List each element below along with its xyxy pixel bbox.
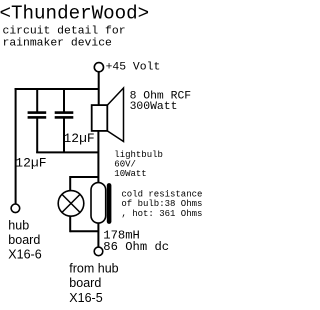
svg-text:board: board xyxy=(69,276,101,290)
svg-text:from hub: from hub xyxy=(69,262,118,276)
svg-text:of bulb:38 Ohms: of bulb:38 Ohms xyxy=(121,199,202,209)
svg-text:circuit detail for: circuit detail for xyxy=(3,26,126,38)
svg-text:12µF: 12µF xyxy=(15,155,46,170)
svg-text:lightbulb: lightbulb xyxy=(114,150,163,160)
svg-text:+45 Volt: +45 Volt xyxy=(106,61,161,73)
svg-text:10Watt: 10Watt xyxy=(114,169,146,179)
svg-text:cold resistance: cold resistance xyxy=(121,189,202,199)
svg-text:60V/: 60V/ xyxy=(114,160,136,170)
svg-text:, hot: 361 Ohms: , hot: 361 Ohms xyxy=(121,209,202,219)
svg-text:X16-5: X16-5 xyxy=(69,291,102,305)
svg-text:12µF: 12µF xyxy=(64,131,95,146)
svg-text:86 Ohm dc: 86 Ohm dc xyxy=(103,240,169,254)
svg-text:300Watt: 300Watt xyxy=(130,101,178,113)
svg-text:X16-6: X16-6 xyxy=(8,248,41,262)
svg-text:board: board xyxy=(8,233,40,247)
svg-text:<ThunderWood>: <ThunderWood> xyxy=(0,2,149,24)
svg-text:rainmaker device: rainmaker device xyxy=(3,38,113,50)
svg-text:hub: hub xyxy=(8,219,29,233)
